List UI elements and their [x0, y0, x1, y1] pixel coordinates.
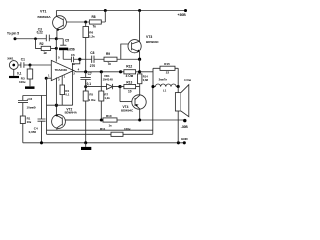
- svg-text:1к: 1к: [43, 51, 47, 55]
- input connector XW1: [7, 56, 19, 78]
- wire pin2 zigzag: [73, 59, 80, 105]
- capacitor C1 0.1: [17, 57, 30, 75]
- speaker BA1 4 Om: [175, 78, 191, 143]
- capacitor C7 0.1: [80, 72, 92, 91]
- resistor R15 22: [153, 62, 178, 74]
- ground symbol: [81, 143, 91, 150]
- node +30V terminal: [178, 9, 188, 17]
- capacitor C2 10uF polarized: [18, 97, 36, 116]
- svg-text:BDW93C: BDW93C: [146, 40, 160, 44]
- svg-text:22: 22: [166, 71, 170, 75]
- wire rail B2 feedback return: [47, 87, 153, 135]
- svg-text:0,1: 0,1: [65, 93, 69, 97]
- wire VT3 base riser: [121, 44, 128, 59]
- diode VD1 1N4148: [103, 74, 120, 89]
- node To pin 5 terminal: [7, 32, 19, 41]
- capacitor C4 0.056: [29, 96, 46, 143]
- capacitor C6: [63, 53, 80, 66]
- resistor R12: [121, 65, 140, 79]
- svg-text:C1: C1: [21, 57, 25, 61]
- svg-text:R9: R9: [106, 52, 110, 56]
- wire pin 3 stub: [55, 78, 57, 106]
- transistor VT2: [52, 105, 86, 130]
- svg-text:10: 10: [128, 89, 132, 93]
- op-amp U1 TDA2030: [48, 60, 80, 80]
- svg-text:TDA2030: TDA2030: [55, 68, 68, 72]
- node output junction C7: [84, 70, 87, 73]
- wire rail B1: [47, 129, 153, 131]
- resistor R6: [83, 22, 95, 72]
- node GND terminal: [181, 137, 189, 144]
- svg-text:1 Ом: 1 Ом: [89, 98, 96, 102]
- resistor R5 1 Om: [83, 80, 95, 143]
- wire to C5: [56, 39, 63, 45]
- svg-text:4 Ом: 4 Ом: [184, 78, 192, 82]
- svg-text:R12: R12: [126, 65, 132, 69]
- svg-text:-30В: -30В: [181, 125, 189, 129]
- svg-text:1N4148: 1N4148: [103, 78, 114, 82]
- svg-text:BDW93A: BDW93A: [38, 15, 52, 19]
- svg-text:1,2к: 1,2к: [89, 35, 95, 39]
- svg-text:GND: GND: [181, 137, 189, 141]
- svg-text:0,88: 0,88: [143, 78, 149, 82]
- svg-text:R10: R10: [106, 114, 112, 118]
- wire VT3 emitter to output: [139, 59, 141, 72]
- svg-text:0,22: 0,22: [37, 30, 43, 34]
- svg-text:XW1: XW1: [7, 56, 14, 60]
- node diode/R13 junction: [118, 85, 121, 88]
- node R7 bottom junction: [100, 119, 103, 122]
- svg-text:0,1: 0,1: [17, 72, 22, 76]
- wire inv input stub: [46, 77, 51, 79]
- wire pin5 supply line: [15, 38, 46, 40]
- svg-text:2мкГн: 2мкГн: [159, 78, 168, 82]
- svg-text:R15: R15: [164, 62, 170, 66]
- node output junction 2: [100, 70, 103, 73]
- svg-text:7к: 7к: [108, 62, 112, 66]
- svg-text:BDW94A: BDW94A: [65, 111, 78, 115]
- svg-text:0,056: 0,056: [29, 130, 37, 134]
- resistor R3 100k: [19, 65, 35, 89]
- resistor R1: [20, 116, 32, 143]
- wire VT4 base feed: [119, 87, 121, 102]
- inductor L1 2uH: [153, 68, 178, 92]
- svg-text:VT1: VT1: [40, 9, 46, 13]
- node junction R2/pin5: [55, 47, 58, 50]
- resistor R8: [86, 11, 106, 29]
- svg-text:0,056: 0,056: [67, 47, 75, 51]
- svg-text:270: 270: [90, 64, 96, 68]
- capacitor C3 0.22: [37, 27, 57, 41]
- node L1 right junction: [177, 85, 180, 88]
- wire feedback vertical: [46, 78, 48, 134]
- wire diode line: [86, 86, 107, 88]
- svg-text:1к: 1к: [109, 123, 113, 127]
- svg-text:10мкФ: 10мкФ: [27, 106, 37, 110]
- node VT2 emitter junction: [55, 104, 58, 107]
- resistor R9: [104, 52, 140, 66]
- svg-text:R5: R5: [89, 92, 93, 96]
- wire op-amp output line: [74, 71, 121, 72]
- svg-text:VT3: VT3: [146, 35, 152, 39]
- node input junction: [29, 64, 32, 67]
- capacitor C5 0.056: [59, 39, 75, 60]
- svg-text:BDW94C: BDW94C: [121, 108, 134, 112]
- transistor VT4: [120, 87, 146, 120]
- node gnd bar junction: [84, 141, 87, 144]
- svg-text:R2: R2: [40, 42, 44, 46]
- wire GND rail: [23, 142, 185, 144]
- node output junction VT3/R14: [138, 70, 141, 73]
- svg-text:1н: 1н: [72, 62, 76, 66]
- svg-text:7к: 7к: [93, 24, 97, 28]
- wire feedback C-net horizontal: [23, 96, 46, 101]
- wire output to L1 block: [140, 71, 153, 73]
- svg-text:1,2к: 1,2к: [104, 96, 110, 100]
- svg-text:To pin 5: To pin 5: [7, 32, 19, 36]
- node junction R2 branch: [34, 37, 37, 40]
- svg-text:C6: C6: [71, 53, 75, 57]
- node VT1 base junction: [84, 21, 87, 24]
- transistor VT1: [38, 9, 86, 38]
- resistor R10: [103, 114, 117, 128]
- wire input to pin1: [30, 64, 51, 66]
- wire top supply rail +30V: [56, 10, 185, 12]
- wire pin3 bus: [47, 78, 73, 106]
- node inverting input junction: [45, 77, 48, 80]
- wire base rail A -30V: [65, 119, 185, 121]
- svg-text:R11: R11: [100, 127, 106, 131]
- node diode wire left junction: [84, 85, 87, 88]
- svg-text:C7: C7: [88, 72, 92, 76]
- node junction VT3 collector on rail: [138, 9, 141, 12]
- node output junction R12: [119, 70, 122, 73]
- node C6 feedback junction: [78, 58, 81, 61]
- resistor R14: [138, 74, 149, 87]
- resistor R13: [120, 81, 140, 94]
- svg-text:R8: R8: [92, 15, 96, 19]
- svg-text:100к: 100к: [19, 80, 26, 84]
- svg-text:10к: 10к: [27, 120, 32, 124]
- wire pin 5 stub: [56, 39, 60, 62]
- node speaker gnd junction: [177, 141, 180, 144]
- resistor R7 1.2k: [99, 72, 111, 119]
- svg-text:4 Ом: 4 Ом: [126, 74, 134, 78]
- capacitor C8 270: [80, 51, 104, 68]
- resistor R4: [60, 76, 70, 106]
- svg-text:C8: C8: [90, 51, 94, 55]
- node C4 gnd junction: [40, 141, 43, 144]
- node -30V terminal: [181, 119, 189, 129]
- node VT4 emitter junction: [138, 119, 141, 122]
- node VT3 emitter / feedback junction: [138, 58, 141, 61]
- svg-text:L1: L1: [163, 88, 167, 92]
- resistor R2 1k: [36, 39, 57, 55]
- node L1 left junction: [151, 85, 154, 88]
- svg-text:C5: C5: [65, 39, 69, 43]
- svg-text:0,1: 0,1: [87, 82, 92, 86]
- node junction R8 riser on rail: [104, 9, 107, 12]
- svg-text:R13: R13: [126, 81, 132, 85]
- resistor R11 100k: [100, 127, 131, 137]
- svg-text:+C2: +C2: [27, 97, 33, 101]
- svg-text:100к: 100к: [124, 127, 131, 131]
- transistor VT3: [128, 11, 160, 60]
- node VT1 emitter junction: [55, 37, 58, 40]
- svg-text:+30В: +30В: [178, 13, 187, 17]
